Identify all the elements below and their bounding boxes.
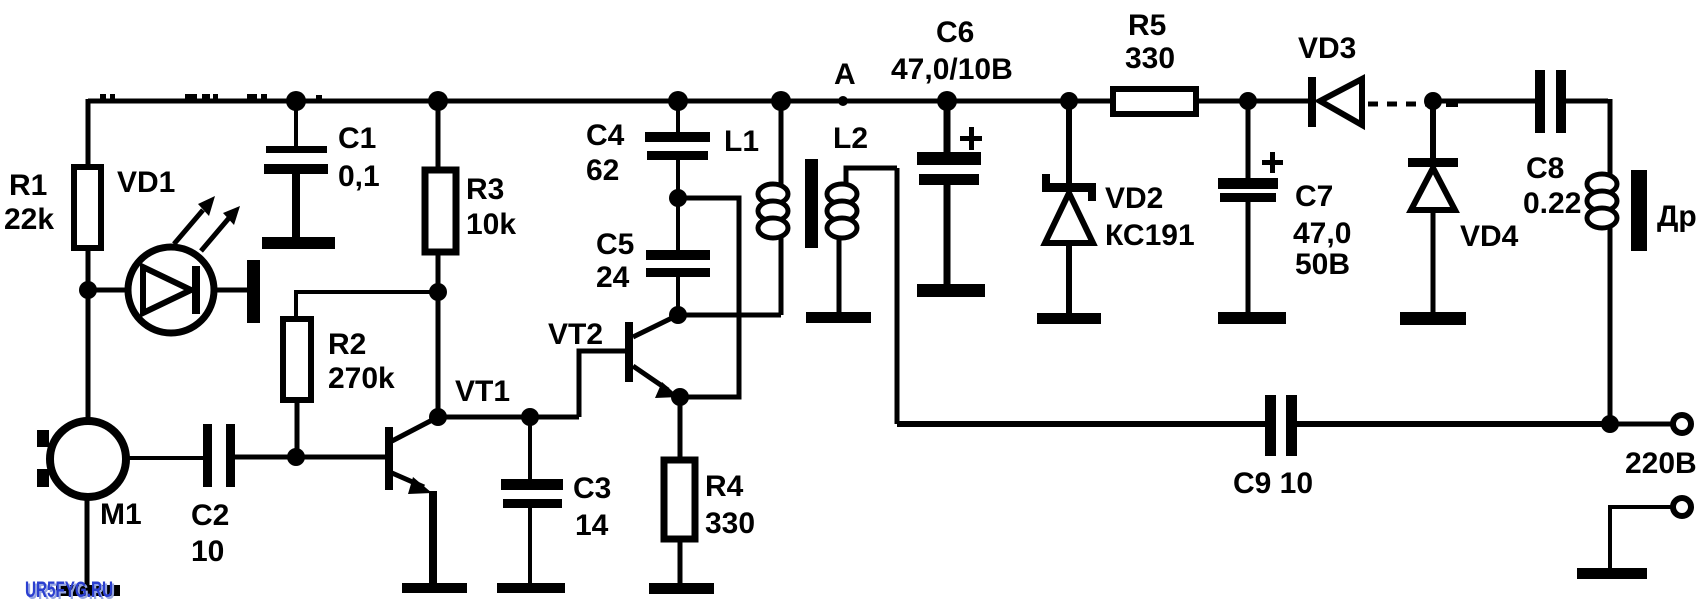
- VD1 light arrows: [174, 196, 240, 251]
- wire right branch down: [1608, 99, 1613, 178]
- ground VT1: [402, 583, 467, 593]
- capacitor C7: [1218, 101, 1283, 313]
- svg-text:R1: R1: [9, 169, 47, 202]
- wire dashed segment VD3 anode to node: [1368, 102, 1426, 107]
- wire feedback loop: [678, 198, 739, 397]
- svg-text:330: 330: [1125, 42, 1175, 75]
- wire L1 bottom to C5 node: [678, 313, 781, 318]
- svg-text:50В: 50В: [1295, 248, 1350, 281]
- terminal 220V lower: [1673, 498, 1691, 516]
- label C6 value: [891, 16, 1013, 86]
- node L1 rail junction: [771, 91, 791, 111]
- terminal 220V upper: [1673, 415, 1691, 433]
- node right branch junction: [1601, 415, 1619, 433]
- ground VD2: [1037, 313, 1101, 324]
- wire top rail between R5 and VD3: [1196, 99, 1308, 104]
- transistor VT1: [385, 417, 438, 494]
- label VD2 value: [1105, 182, 1195, 252]
- wire node to C8: [1433, 99, 1535, 104]
- wire M1 bottom: [85, 497, 90, 588]
- label C5 value: [596, 228, 634, 294]
- svg-text:24: 24: [596, 261, 630, 294]
- node R2 bottom junction: [287, 448, 305, 466]
- capacitor C3: [501, 417, 563, 585]
- wire R2 top corner: [294, 290, 298, 319]
- svg-text:R2: R2: [328, 328, 366, 361]
- svg-text:R5: R5: [1128, 9, 1166, 42]
- ground lower terminal: [1577, 568, 1647, 579]
- wire C9 row left: [897, 421, 1265, 427]
- wire VT1 emitter down: [429, 491, 437, 585]
- wire lower terminal: [1610, 507, 1671, 568]
- watermark: [25, 577, 115, 604]
- svg-text:C4: C4: [586, 119, 625, 152]
- node C4 rail junction: [668, 91, 688, 111]
- svg-text:22k: 22k: [4, 203, 54, 236]
- node C6 rail junction: [937, 91, 957, 111]
- diode VD4: [1408, 101, 1458, 313]
- label R4 value: [705, 470, 755, 540]
- resistor R4: [664, 460, 695, 539]
- capacitor C9: [1265, 395, 1297, 456]
- node VD1 left junction: [79, 281, 97, 299]
- microphone M1: [37, 421, 126, 497]
- ground M1: [56, 585, 120, 596]
- svg-text:А: А: [834, 58, 856, 91]
- node R3 rail junction: [428, 91, 448, 111]
- svg-text:VD2: VD2: [1105, 182, 1163, 215]
- ground C6: [917, 284, 985, 297]
- svg-text:62: 62: [586, 154, 619, 187]
- svg-text:VD4: VD4: [1460, 220, 1519, 253]
- svg-text:C1: C1: [338, 122, 376, 155]
- label R3 value: [466, 173, 516, 241]
- label C4 value: [586, 119, 625, 187]
- svg-text:14: 14: [575, 509, 609, 542]
- svg-text:C9 10: C9 10: [1233, 467, 1313, 500]
- svg-text:UR5FYG.RU: UR5FYG.RU: [25, 577, 113, 602]
- label C7 value: [1293, 180, 1351, 281]
- inductor L1: [758, 101, 788, 315]
- svg-text:C7: C7: [1295, 180, 1333, 213]
- label C2 value: [191, 499, 229, 568]
- capacitor C8: [1535, 70, 1566, 133]
- wire R2 top horizontal: [296, 290, 438, 294]
- svg-text:VT2: VT2: [548, 318, 603, 351]
- node C5 bottom junction: [669, 306, 687, 324]
- node VD2 rail junction: [1060, 92, 1078, 110]
- wire M1 to C2: [126, 456, 203, 460]
- capacitor C6: [917, 101, 982, 285]
- transformer core: [805, 159, 818, 248]
- wire R1 to microphone: [86, 248, 91, 421]
- label C8 value: [1523, 152, 1581, 220]
- ground VD4: [1400, 312, 1466, 325]
- wire VD1 right lead: [214, 288, 247, 293]
- resistor R5: [1113, 89, 1196, 114]
- svg-text:C3: C3: [573, 472, 611, 505]
- svg-text:L1: L1: [724, 125, 759, 158]
- wire node to terminal: [1610, 422, 1671, 427]
- ground C1: [262, 237, 335, 249]
- resistor R3: [425, 170, 456, 252]
- svg-text:VD3: VD3: [1298, 32, 1356, 65]
- inductor DR choke: [1587, 174, 1617, 424]
- svg-text:330: 330: [705, 507, 755, 540]
- node VD4 rail junction: [1424, 92, 1442, 110]
- svg-text:270k: 270k: [328, 362, 395, 395]
- wire VT2 base riser: [579, 351, 625, 417]
- svg-text:0,1: 0,1: [338, 160, 380, 193]
- svg-text:VD1: VD1: [117, 166, 175, 199]
- VD1 electrode bar: [247, 260, 260, 323]
- svg-text:M1: M1: [100, 498, 142, 531]
- inductor L2: [827, 168, 897, 312]
- label C1 value: [338, 122, 380, 193]
- svg-text:VT1: VT1: [455, 375, 510, 408]
- label R5 value: [1125, 9, 1175, 75]
- svg-text:КС191: КС191: [1105, 219, 1195, 252]
- svg-text:Др: Др: [1657, 200, 1697, 233]
- svg-text:R4: R4: [705, 470, 744, 503]
- svg-text:47,0/10В: 47,0/10В: [891, 53, 1013, 86]
- capacitor C2: [203, 424, 235, 487]
- node C7 rail junction: [1239, 92, 1257, 110]
- resistor R2: [283, 319, 311, 400]
- capacitor C1: [264, 101, 328, 238]
- svg-text:C5: C5: [596, 228, 634, 261]
- label R1 value: [4, 169, 54, 236]
- wire emitter to R4: [678, 397, 683, 460]
- svg-text:10k: 10k: [466, 208, 516, 241]
- svg-text:47,0: 47,0: [1293, 217, 1351, 250]
- svg-text:10: 10: [191, 535, 224, 568]
- wire left vertical branch: [86, 99, 91, 167]
- DR core bar: [1631, 170, 1647, 251]
- ground L2: [806, 312, 871, 323]
- node C3 junction: [521, 408, 539, 426]
- label C3 value: [573, 472, 611, 542]
- svg-text:220В: 220В: [1625, 447, 1697, 480]
- node R3 bottom junction: [429, 283, 447, 301]
- wire L2 top riser down: [895, 168, 900, 424]
- transistor VT2: [625, 316, 679, 398]
- wire collector row: [438, 415, 579, 420]
- node A tick: [838, 96, 848, 106]
- wire C2 to VT1 base: [235, 455, 385, 460]
- capacitor C4: [645, 101, 710, 198]
- wire node to VT1 collector node: [436, 292, 441, 417]
- node VT1 collector junction: [429, 408, 447, 426]
- wire rail to R3: [436, 101, 441, 170]
- svg-text:С8: С8: [1526, 152, 1564, 185]
- rail scan specks: [100, 94, 1458, 107]
- ground C3: [497, 583, 565, 593]
- ground R4: [649, 583, 714, 594]
- svg-text:R3: R3: [466, 173, 504, 206]
- diode VD3: [1308, 77, 1362, 127]
- wire C9 row right: [1297, 421, 1610, 427]
- node VT2 emitter junction: [671, 388, 689, 406]
- zener diode VD2: [1042, 101, 1096, 314]
- wire R3 to node: [436, 252, 441, 292]
- capacitor C5: [646, 198, 710, 315]
- wire R4 bottom: [678, 539, 683, 585]
- svg-text:C6: C6: [936, 16, 974, 49]
- wire top supply rail left segment: [88, 99, 1113, 104]
- svg-text:C2: C2: [191, 499, 229, 532]
- wire C8 to right corner: [1564, 99, 1608, 104]
- svg-text:0.22: 0.22: [1523, 187, 1581, 220]
- photodiode VD1: [128, 247, 214, 333]
- ground C7: [1218, 312, 1286, 324]
- wire R2 bottom: [295, 400, 300, 457]
- wire VD1 left lead: [88, 288, 128, 293]
- node C1 rail junction: [286, 91, 306, 111]
- resistor R1: [74, 167, 101, 248]
- svg-text:L2: L2: [833, 122, 868, 155]
- label R2 value: [328, 328, 395, 395]
- node C4 C5 junction: [669, 189, 687, 207]
